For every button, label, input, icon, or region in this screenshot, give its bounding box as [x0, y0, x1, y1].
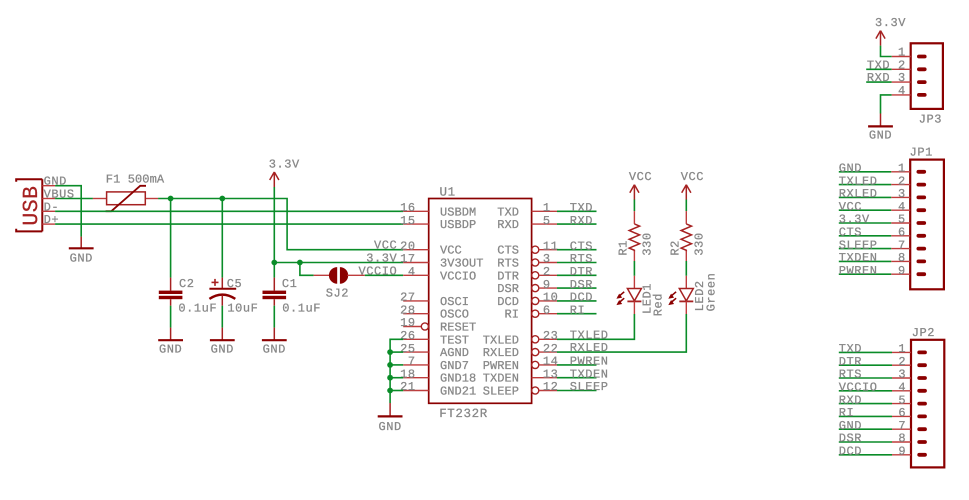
wire VBUS to C5 — [221, 199, 223, 278]
svg-text:GND: GND — [211, 343, 234, 357]
wire JP3 pin 4 to GND — [881, 95, 892, 114]
svg-text:12: 12 — [543, 380, 559, 394]
power VCC (R1) — [629, 170, 652, 200]
svg-text:GND: GND — [263, 343, 286, 357]
IC U1 FT232R box — [429, 199, 532, 404]
U1 pin 7 (GND7) — [403, 355, 469, 373]
junction VBUS/C2 — [168, 196, 174, 202]
svg-text:9: 9 — [898, 445, 906, 459]
U1 pin 21 (GND21) — [400, 380, 476, 398]
U1 pin 10 (DCD) — [497, 291, 558, 309]
svg-text:SJ2: SJ2 — [326, 287, 349, 301]
power 3.3V (JP3) — [875, 16, 906, 45]
svg-text:3.3V: 3.3V — [875, 16, 906, 30]
svg-text:21: 21 — [400, 380, 416, 394]
wire/net DCD — [557, 300, 597, 302]
connector USB — [16, 179, 55, 231]
svg-text:4: 4 — [408, 265, 416, 279]
svg-text:0.1uF: 0.1uF — [178, 301, 217, 315]
U1 pin 15 (USBDP) — [400, 214, 476, 232]
svg-text:SLEEP: SLEEP — [483, 385, 519, 399]
junction GND bus 7 — [387, 362, 393, 368]
svg-text:RI: RI — [570, 303, 586, 317]
JP2 pin 5 / net RXD — [839, 393, 911, 407]
wire/net SLEEP — [557, 390, 597, 392]
junction 3.3V/C1 — [271, 260, 277, 266]
wire C1 to GND — [273, 306, 275, 328]
U1 pin 13 (TXDEN) — [483, 367, 559, 385]
svg-text:GND: GND — [869, 129, 892, 143]
svg-text:3.3V: 3.3V — [269, 158, 300, 172]
svg-text:6: 6 — [543, 303, 551, 317]
wire/net TXDEN — [557, 377, 597, 379]
wire GND bus (U1) — [390, 339, 403, 403]
svg-text:C5: C5 — [227, 277, 243, 291]
wire SJ2 to VCCIO — [365, 274, 403, 276]
wire C2 to GND — [170, 306, 172, 328]
U1 pin 23 (TXLED) — [483, 329, 559, 347]
JP1 pin 8 / net TXDEN — [839, 251, 910, 265]
JP1 pin 5 / net 3.3V — [839, 213, 910, 227]
svg-text:RI: RI — [504, 308, 519, 322]
fuse F1 — [93, 186, 158, 211]
svg-text:SLEEP: SLEEP — [570, 380, 609, 394]
svg-text:VCC: VCC — [681, 170, 704, 184]
svg-text:GND: GND — [70, 251, 93, 265]
JP1 pin 7 / net SLEEP — [839, 238, 910, 252]
junction GND bus 21 — [387, 388, 393, 394]
svg-text:PWREN: PWREN — [839, 264, 878, 278]
wire/net RTS — [557, 262, 597, 264]
U1 pin 27 (OSCI) — [400, 291, 469, 309]
U1 pin 1 (TXD) — [497, 201, 557, 219]
svg-text:R2: R2 — [668, 240, 682, 256]
JP2 pin 4 / net VCCIO — [839, 381, 911, 395]
ground GND (C1) — [262, 328, 287, 357]
ground GND (U1) — [378, 403, 403, 434]
wire/net PWREN — [557, 364, 597, 366]
capacitor C2 — [159, 278, 183, 306]
ground GND (C5) — [210, 328, 235, 357]
wire 3.3V branch to SJ2 — [300, 263, 314, 276]
wire D+ (USBDP) — [55, 223, 403, 225]
svg-text:VCCIO: VCCIO — [359, 264, 398, 278]
connector JP3 — [911, 43, 943, 109]
resistor R2 and LED2 — [668, 200, 693, 315]
wire/net TXD — [557, 210, 597, 212]
U1 pin 19 (RESET) — [400, 316, 476, 334]
JP1 pin 1 / net GND — [839, 162, 910, 176]
wire/net RI — [557, 313, 597, 315]
wire VBUS to C2 — [170, 199, 172, 278]
U1 pin 22 (RXLED) — [483, 342, 559, 360]
JP2 pin 7 / net GND — [839, 419, 911, 433]
wire C5 to GND — [221, 306, 223, 328]
svg-text:15: 15 — [400, 214, 416, 228]
power 3.3V — [269, 158, 300, 188]
U1 pin 4 (VCCIO) — [403, 265, 476, 283]
svg-text:JP2: JP2 — [912, 326, 935, 340]
JP1 pin 4 / net VCC — [839, 200, 910, 214]
svg-text:Red: Red — [651, 293, 665, 316]
svg-text:5: 5 — [543, 214, 551, 228]
JP1 pin 2 / net TXLED — [839, 174, 910, 188]
ground GND (JP3) — [868, 114, 893, 143]
junction GND bus 18 — [387, 375, 393, 381]
svg-text:9: 9 — [898, 264, 906, 278]
JP1 pin 3 / net RXLED — [839, 187, 910, 201]
svg-text:GND: GND — [159, 343, 182, 357]
svg-text:USBDP: USBDP — [440, 218, 476, 232]
wire/net DTR — [557, 274, 597, 276]
power VCC (R2) — [681, 170, 704, 200]
wire/net RXLED — [557, 314, 686, 352]
connector JP1 — [910, 160, 944, 290]
svg-text:GND: GND — [378, 420, 401, 434]
svg-text:330: 330 — [692, 232, 706, 255]
U1 pin 28 (OSCO) — [400, 303, 469, 321]
JP3 pin 4 — [892, 94, 911, 96]
svg-text:F1 500mA: F1 500mA — [106, 172, 165, 186]
U1 pin 12 (SLEEP) — [483, 380, 559, 398]
svg-text:10uF: 10uF — [227, 301, 258, 315]
svg-text:330: 330 — [640, 232, 654, 255]
capacitor C1 — [263, 278, 287, 306]
svg-text:Green: Green — [705, 273, 719, 312]
ground GND (C2) — [158, 328, 183, 357]
JP2 pin 1 / net TXD — [839, 342, 911, 356]
JP1 pin 9 / net PWREN — [839, 264, 910, 278]
U1 pin 9 (DSR) — [497, 278, 557, 296]
connector JP2 — [911, 340, 944, 468]
svg-text:GND21: GND21 — [440, 385, 476, 399]
U1 pin 6 (RI) — [504, 303, 557, 321]
resistor R1 and LED1 — [616, 200, 641, 315]
svg-text:D+: D+ — [44, 213, 60, 227]
wire/net TXLED — [557, 314, 634, 339]
wire 3.3V rail — [273, 187, 275, 263]
U1 pin 25 (AGND) — [400, 342, 469, 360]
wire/net RXD — [557, 223, 597, 225]
junction VBUS/C5 — [219, 196, 225, 202]
svg-text:4: 4 — [898, 84, 906, 98]
U1 pin 11 (CTS) — [497, 239, 558, 257]
wire 3.3V to JP3 pin 1 — [881, 46, 892, 57]
svg-text:FT232R: FT232R — [439, 407, 488, 421]
JP3 pin 3 — [892, 81, 911, 83]
U1 pin 20 (VCC) — [400, 239, 462, 257]
wire/net DSR — [557, 287, 597, 289]
U1 pin 16 (USBDM) — [400, 201, 476, 219]
wire VBUS — [55, 198, 93, 200]
svg-text:RXD: RXD — [497, 218, 519, 232]
JP1 pin 6 / net CTS — [839, 226, 910, 240]
svg-text:DCD: DCD — [839, 445, 862, 459]
wire/net CTS — [557, 249, 597, 251]
JP2 pin 3 / net RTS — [839, 368, 911, 382]
svg-text:RXLED: RXLED — [570, 341, 609, 355]
U1 pin 18 (GND18) — [400, 367, 476, 385]
wire GND (USB) — [55, 186, 81, 237]
svg-text:JP3: JP3 — [919, 113, 942, 127]
svg-text:VCCIO: VCCIO — [440, 269, 476, 283]
wire 3.3V to 3V3OUT — [274, 262, 403, 264]
U1 pin 5 (RXD) — [497, 214, 557, 232]
wire 3.3V to C1 — [273, 263, 275, 278]
junction GND bus 25 — [387, 349, 393, 355]
wire/net TXD (JP3) — [866, 68, 892, 70]
JP2 pin 9 / net DCD — [839, 445, 911, 459]
U1 pin 17 (3V3OUT) — [400, 252, 483, 270]
svg-text:U1: U1 — [440, 186, 456, 200]
capacitor C5 — [209, 278, 236, 306]
svg-text:0.1uF: 0.1uF — [282, 301, 321, 315]
JP3 pin 2 — [892, 68, 911, 70]
JP2 pin 6 / net RI — [839, 406, 911, 420]
wire D- (USBDM) — [55, 210, 403, 212]
solder jumper SJ2 — [314, 267, 365, 284]
svg-text:VCC: VCC — [629, 170, 652, 184]
JP2 pin 8 / net DSR — [839, 432, 911, 446]
svg-text:C2: C2 — [179, 277, 195, 291]
U1 pin 2 (DTR) — [497, 265, 557, 283]
svg-text:RXD: RXD — [867, 71, 890, 85]
JP2 pin 2 / net DTR — [839, 355, 911, 369]
svg-text:RXD: RXD — [570, 214, 593, 228]
JP3 pin 1 — [892, 56, 911, 58]
ground GND (USB) — [69, 237, 94, 266]
svg-text:C1: C1 — [282, 277, 298, 291]
U1 pin 3 (RTS) — [497, 252, 557, 270]
junction 3.3V branch (SJ2) — [297, 260, 303, 266]
U1 pin 14 (PWREN) — [483, 355, 559, 373]
svg-text:R1: R1 — [616, 240, 630, 256]
U1 pin 26 (TEST) — [400, 329, 469, 347]
svg-text:USB: USB — [20, 186, 44, 226]
wire/net RXD (JP3) — [866, 81, 892, 83]
svg-text:JP1: JP1 — [910, 146, 933, 160]
wire VCC (fuse to U1) — [158, 199, 403, 250]
